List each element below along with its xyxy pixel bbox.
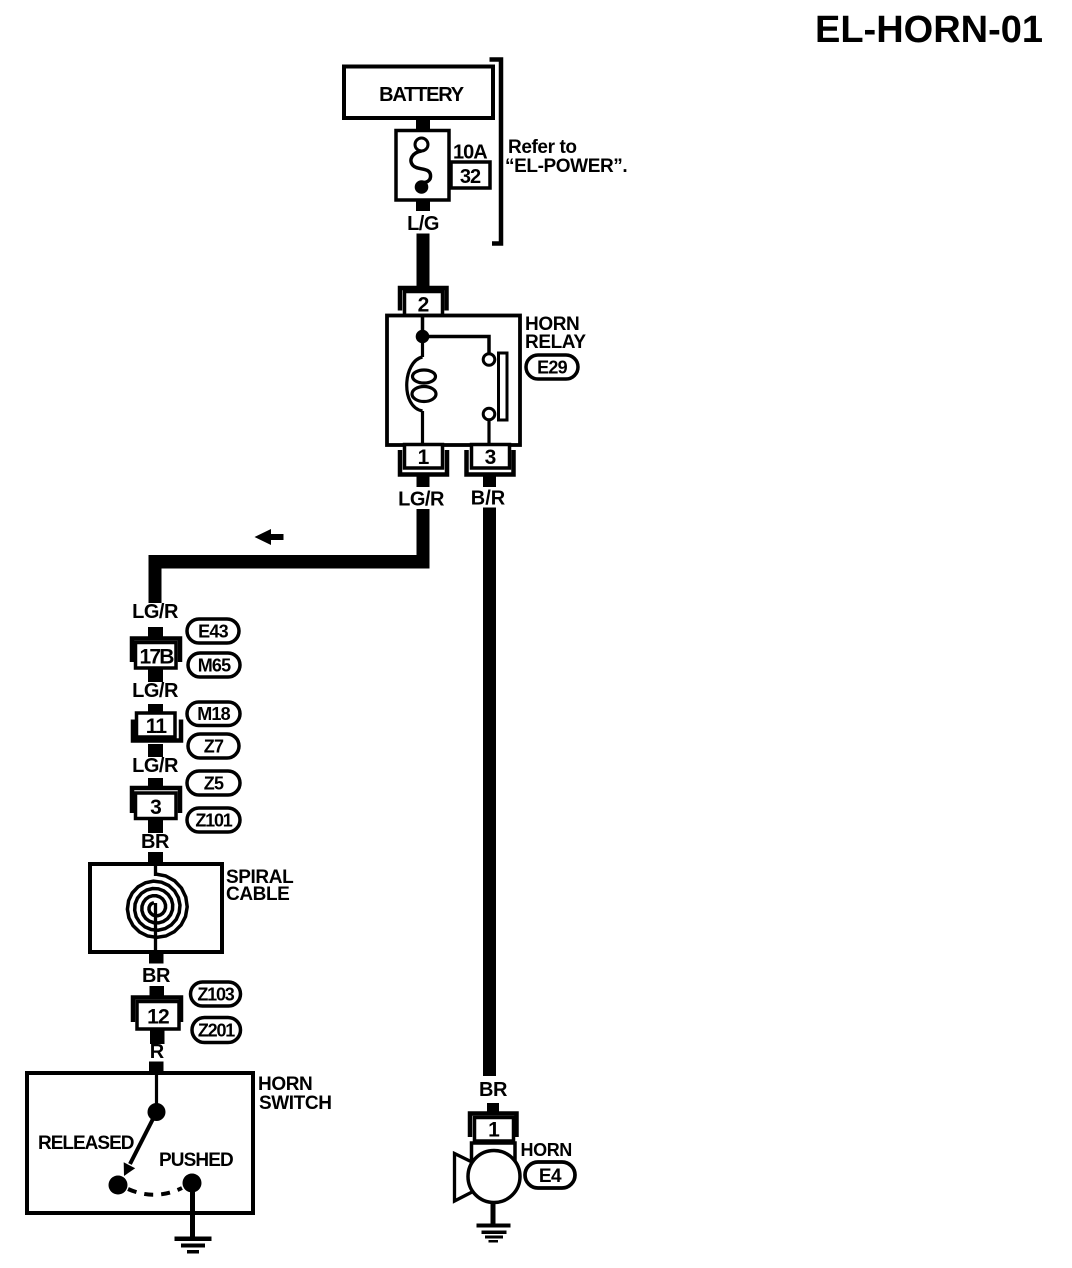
relay contact upper [483,354,495,366]
horn bell circle [468,1151,520,1203]
connector oval E4 [525,1162,575,1188]
svg-text:LG/R: LG/R [132,601,179,623]
label HORN SWITCH [258,1074,332,1114]
battery B1 [344,67,493,119]
connector oval Z103 [191,982,241,1006]
wire stub [148,778,163,790]
connector oval E43 [187,619,239,643]
wire stub below spiral cable [149,952,164,964]
connector 11 [133,713,181,741]
wire B/R long down [483,508,496,1077]
label SPIRAL CABLE [226,867,294,905]
wire battery to fuse [416,116,430,131]
horn switch SW box [27,1073,253,1213]
svg-text:CABLE: CABLE [226,884,289,905]
svg-text:32: 32 [460,166,481,188]
wire stub below pin 1 [417,477,430,488]
wire stub [150,986,165,996]
wire stub into horn switch [149,1062,164,1074]
wire stub below 12 [150,1031,165,1045]
svg-text:Z201: Z201 [198,1021,235,1041]
svg-text:12: 12 [147,1006,169,1029]
svg-text:“EL-POWER”.: “EL-POWER”. [505,156,627,177]
horn trumpet [455,1154,477,1202]
arrow on wire [255,529,284,545]
svg-text:B/R: B/R [471,488,506,510]
svg-text:BR: BR [142,965,171,987]
svg-text:E4: E4 [539,1166,562,1187]
connector pin 3 (horn relay) [467,445,514,475]
relay contact bar [499,353,508,420]
fuse number box 32 [451,162,490,188]
wire stub [148,627,163,637]
connector pin 2 (horn relay) [400,288,447,317]
wire stub [148,704,163,714]
wire stub [148,669,163,683]
bracket refer to EL-POWER [490,60,502,244]
svg-text:LG/R: LG/R [132,755,179,777]
wire lower contact to pin 3 [487,420,490,444]
wire pushed contact to ground [190,1183,195,1238]
svg-text:Z101: Z101 [195,811,232,831]
spiral cable box [90,864,222,952]
svg-text:Refer to: Refer to [508,137,577,158]
svg-text:LG/R: LG/R [132,680,179,702]
label HORN RELAY [525,314,586,353]
fuse F (10A, 32) [396,131,449,201]
svg-text:3: 3 [150,796,162,819]
svg-text:E43: E43 [198,622,228,642]
switch arm released [130,1112,157,1164]
svg-text:Z103: Z103 [197,985,234,1005]
connector oval M65 [188,653,240,677]
ground (horn) [477,1224,511,1243]
connector 12 [133,998,181,1030]
svg-text:SWITCH: SWITCH [259,1093,332,1114]
svg-text:11: 11 [146,715,168,738]
svg-text:Z5: Z5 [204,774,224,794]
connector 3 [132,788,180,819]
svg-text:L/G: L/G [407,213,439,235]
horn body rect [472,1143,516,1160]
svg-text:RELEASED: RELEASED [38,1133,134,1154]
svg-text:BATTERY: BATTERY [379,84,465,106]
wire L/G down to relay [417,234,430,288]
wire stub into horn connector [487,1103,499,1113]
wire stub [148,819,163,834]
svg-text:LG/R: LG/R [398,489,445,511]
switch common node [148,1103,166,1121]
wire horn to ground [491,1203,496,1225]
connector pin 1 (horn relay) [400,445,447,475]
dashed travel arc [128,1188,182,1195]
svg-text:EL-HORN-01: EL-HORN-01 [815,9,1043,51]
svg-text:BR: BR [479,1079,508,1101]
connector oval Z101 [187,808,240,832]
connector oval M18 [187,702,240,726]
svg-text:3: 3 [485,446,497,469]
svg-text:1: 1 [488,1119,500,1142]
relay coil [407,343,436,444]
horn relay U1 box [387,316,520,446]
svg-text:Z7: Z7 [204,737,224,757]
svg-text:R: R [150,1041,165,1063]
svg-text:HORN: HORN [258,1074,312,1095]
relay contact lower [483,408,495,420]
connector oval Z7 [188,734,239,758]
connector pin 1 (horn) [470,1114,517,1142]
wire stub [148,744,163,757]
svg-text:10A: 10A [453,142,487,164]
wire stub [148,852,163,865]
svg-text:1: 1 [418,446,430,469]
node junction dot [416,330,430,344]
svg-text:E29: E29 [537,358,567,378]
svg-text:HORN: HORN [521,1140,572,1160]
connector oval E29 [526,355,578,379]
wire junction to contact branch [423,337,490,354]
svg-text:M65: M65 [198,656,231,676]
switch contact released node [109,1176,128,1195]
svg-text:BR: BR [141,831,170,853]
svg-text:M18: M18 [197,704,230,724]
svg-text:RELAY: RELAY [525,332,586,353]
wire stub below fuse [416,200,430,211]
svg-text:PUSHED: PUSHED [159,1150,233,1171]
wire pin2 into relay [421,316,425,336]
switch contact pushed node [183,1174,202,1193]
svg-text:17B: 17B [139,646,174,669]
connector oval Z5 [187,771,240,795]
wire stub below pin 3 [483,477,496,488]
svg-text:2: 2 [418,294,430,317]
note Refer to EL-POWER [505,137,627,177]
connector 17B [132,639,180,669]
wire LG/R bend to left [149,509,430,603]
ground (horn switch) [175,1237,212,1254]
wire into switch common [155,1073,158,1105]
connector oval Z201 [192,1018,241,1043]
